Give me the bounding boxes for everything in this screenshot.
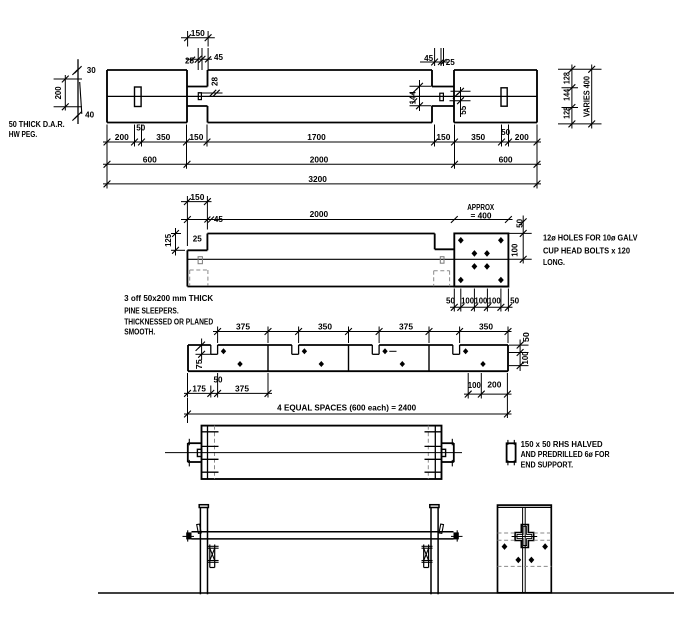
svg-text:PINE SLEEPERS.: PINE SLEEPERS. [124, 306, 179, 315]
svg-text:CUP HEAD BOLTS x 120: CUP HEAD BOLTS x 120 [543, 246, 631, 255]
svg-text:VARIES 400: VARIES 400 [582, 76, 591, 118]
svg-text:100: 100 [468, 381, 482, 390]
svg-text:150: 150 [436, 133, 451, 142]
svg-text:50: 50 [522, 331, 531, 342]
svg-text:125: 125 [164, 233, 173, 247]
svg-text:50: 50 [214, 375, 224, 384]
svg-text:375: 375 [235, 384, 250, 393]
svg-text:THICKNESSED OR PLANED: THICKNESSED OR PLANED [124, 317, 213, 326]
svg-text:100: 100 [488, 296, 502, 305]
svg-text:50: 50 [516, 218, 525, 228]
svg-text:12ø HOLES FOR 10ø GALV: 12ø HOLES FOR 10ø GALV [543, 234, 638, 243]
svg-text:2000: 2000 [310, 155, 329, 164]
svg-text:144: 144 [409, 91, 418, 105]
svg-text:50 THICK D.A.R.: 50 THICK D.A.R. [9, 120, 65, 129]
svg-text:= 400: = 400 [471, 211, 493, 220]
svg-text:175: 175 [192, 384, 206, 393]
svg-text:150: 150 [189, 133, 204, 142]
svg-text:150: 150 [191, 29, 206, 38]
svg-text:350: 350 [156, 133, 171, 142]
svg-text:28: 28 [211, 76, 220, 86]
svg-text:50: 50 [446, 296, 456, 305]
svg-text:25: 25 [193, 234, 203, 243]
svg-text:375: 375 [399, 322, 414, 331]
svg-text:150 x 50 RHS HALVED: 150 x 50 RHS HALVED [521, 440, 603, 449]
svg-text:HW PEG.: HW PEG. [9, 130, 38, 139]
svg-text:200: 200 [487, 380, 502, 389]
svg-text:100: 100 [474, 296, 488, 305]
svg-text:50: 50 [510, 296, 520, 305]
svg-text:LONG.: LONG. [543, 258, 565, 267]
svg-text:150: 150 [190, 193, 205, 202]
svg-text:350: 350 [318, 322, 333, 331]
svg-text:600: 600 [499, 155, 514, 164]
svg-text:25: 25 [185, 56, 195, 65]
svg-text:40: 40 [85, 110, 95, 119]
svg-text:128: 128 [563, 72, 572, 84]
svg-text:350: 350 [471, 133, 486, 142]
svg-text:600: 600 [143, 155, 158, 164]
svg-text:375: 375 [236, 322, 251, 331]
svg-text:30: 30 [87, 66, 97, 75]
svg-text:200: 200 [515, 133, 530, 142]
svg-text:100: 100 [461, 296, 475, 305]
svg-text:50: 50 [136, 124, 146, 133]
svg-text:END SUPPORT.: END SUPPORT. [521, 461, 574, 470]
svg-text:3200: 3200 [308, 175, 327, 184]
svg-text:75: 75 [195, 359, 204, 370]
svg-text:100: 100 [521, 351, 530, 365]
svg-text:100: 100 [511, 243, 520, 257]
svg-text:AND PREDRILLED 6ø FOR: AND PREDRILLED 6ø FOR [521, 450, 610, 459]
svg-text:50: 50 [501, 128, 511, 137]
svg-text:55: 55 [459, 105, 468, 115]
svg-text:25: 25 [446, 58, 456, 67]
svg-text:45: 45 [424, 54, 434, 63]
svg-text:350: 350 [479, 322, 494, 331]
svg-text:144: 144 [563, 88, 572, 100]
svg-text:200: 200 [115, 133, 130, 142]
svg-text:200: 200 [54, 86, 63, 100]
svg-text:4 EQUAL SPACES (600 each) = 24: 4 EQUAL SPACES (600 each) = 2400 [277, 403, 417, 412]
svg-text:SMOOTH.: SMOOTH. [124, 328, 155, 337]
svg-text:128: 128 [563, 106, 572, 118]
svg-text:45: 45 [214, 215, 224, 224]
svg-text:3 off 50x200 mm THICK: 3 off 50x200 mm THICK [124, 294, 213, 303]
svg-text:1700: 1700 [307, 133, 326, 142]
svg-text:2000: 2000 [310, 210, 329, 219]
svg-text:45: 45 [214, 53, 224, 62]
